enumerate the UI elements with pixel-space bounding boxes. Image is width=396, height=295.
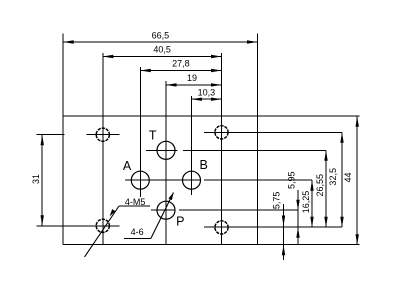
svg-text:10,3: 10,3 xyxy=(198,87,216,97)
svg-text:P: P xyxy=(176,215,184,229)
svg-text:31: 31 xyxy=(31,174,41,184)
svg-text:16,25: 16,25 xyxy=(301,191,311,214)
svg-text:5,75: 5,75 xyxy=(271,192,281,210)
svg-text:44: 44 xyxy=(343,172,353,182)
svg-text:4-6: 4-6 xyxy=(131,227,144,237)
svg-text:32,5: 32,5 xyxy=(328,168,338,186)
svg-text:19: 19 xyxy=(187,73,197,83)
svg-text:66,5: 66,5 xyxy=(152,31,170,41)
svg-text:5,95: 5,95 xyxy=(287,171,297,189)
svg-text:T: T xyxy=(149,128,157,142)
svg-text:26,55: 26,55 xyxy=(315,174,325,197)
svg-text:27,8: 27,8 xyxy=(172,59,190,69)
svg-text:4-M5: 4-M5 xyxy=(125,197,146,207)
svg-text:B: B xyxy=(200,158,208,172)
svg-text:40,5: 40,5 xyxy=(153,45,171,55)
svg-text:A: A xyxy=(123,159,132,173)
